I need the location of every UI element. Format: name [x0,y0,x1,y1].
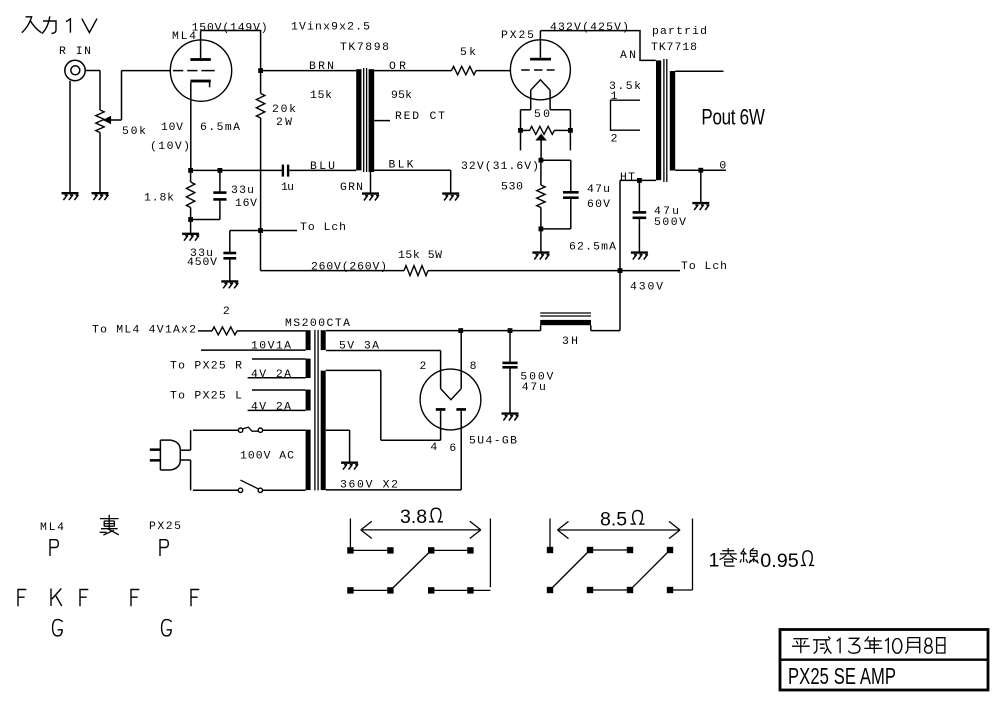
svg-text:8: 8 [470,361,477,373]
svg-text:BLU: BLU [310,161,335,173]
svg-text:95k: 95k [391,90,412,102]
svg-text:360V X2: 360V X2 [340,479,398,491]
svg-text:(10V): (10V) [150,141,190,153]
svg-text:1: 1 [709,550,720,572]
svg-text:1u: 1u [281,182,294,194]
svg-text:Pout 6W: Pout 6W [701,105,765,130]
svg-text:PX25 SE AMP: PX25 SE AMP [788,664,896,689]
svg-text:60V: 60V [587,199,610,211]
svg-text:260V(260V): 260V(260V) [311,262,387,274]
svg-text:2: 2 [611,134,618,146]
svg-text:2: 2 [419,361,426,373]
svg-text:432V(425V): 432V(425V) [550,22,629,34]
svg-text:4V 2A: 4V 2A [251,369,291,381]
svg-text:20k: 20k [272,104,296,116]
svg-text:530: 530 [501,182,523,194]
svg-text:R IN: R IN [59,46,91,58]
svg-text:BRN: BRN [309,61,334,73]
svg-text:8.5: 8.5 [600,509,627,531]
svg-text:1Vinx9x2.5: 1Vinx9x2.5 [291,22,370,34]
svg-text:4V 2A: 4V 2A [251,402,291,414]
svg-text:16V: 16V [235,198,257,210]
svg-text:15k 5W: 15k 5W [398,250,442,262]
svg-text:32V(31.6V): 32V(31.6V) [461,161,539,173]
svg-text:PX25: PX25 [149,521,181,533]
svg-text:0: 0 [719,160,726,172]
svg-text:4: 4 [430,442,437,454]
svg-text:500V: 500V [654,217,686,229]
svg-text:BLK: BLK [389,160,414,172]
svg-text:150V(149V): 150V(149V) [192,22,268,34]
svg-text:10V1A: 10V1A [251,341,291,353]
svg-text:1.8k: 1.8k [144,193,174,205]
svg-text:HT: HT [620,172,635,184]
svg-text:47u: 47u [522,382,546,394]
svg-text:partrid: partrid [652,26,707,38]
svg-text:450V: 450V [187,257,217,269]
svg-text:0.95: 0.95 [760,550,799,572]
svg-text:100V AC: 100V AC [240,451,294,463]
svg-text:6: 6 [449,443,456,455]
svg-text:1: 1 [611,91,618,103]
svg-text:5V 3A: 5V 3A [339,341,379,353]
svg-text:62.5mA: 62.5mA [569,242,616,254]
svg-text:MS200CTA: MS200CTA [285,318,350,330]
svg-text:6.5mA: 6.5mA [200,122,240,134]
svg-text:2: 2 [223,306,230,318]
svg-text:50k: 50k [122,126,146,138]
svg-text:GRN: GRN [340,182,363,194]
svg-text:ML4: ML4 [40,522,64,534]
svg-text:To Lch: To Lch [681,261,727,273]
svg-text:TK7718: TK7718 [651,42,697,54]
svg-text:10V: 10V [161,122,183,134]
svg-text:430V: 430V [630,282,663,294]
svg-text:To PX25 L: To PX25 L [170,391,242,403]
svg-text:To ML4 4V1Ax2: To ML4 4V1Ax2 [92,325,196,337]
svg-text:33u: 33u [231,185,254,197]
svg-text:PX25: PX25 [501,30,534,42]
svg-text:To PX25 R: To PX25 R [170,361,242,373]
svg-text:To Lch: To Lch [300,222,346,234]
svg-text:3.8: 3.8 [400,506,427,528]
svg-text:47u: 47u [587,184,610,196]
svg-text:15k: 15k [310,90,332,102]
